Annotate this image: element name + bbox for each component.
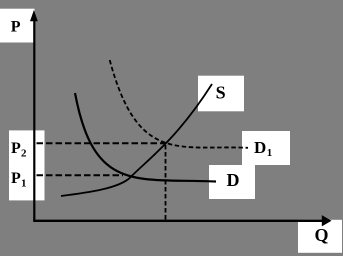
svg-text:D: D	[254, 138, 266, 157]
svg-text:D: D	[227, 170, 240, 190]
svg-text:2: 2	[21, 148, 27, 160]
svg-text:S: S	[216, 82, 226, 102]
svg-text:P: P	[11, 170, 21, 187]
svg-text:1: 1	[267, 147, 273, 159]
svg-text:P: P	[11, 140, 21, 157]
svg-text:Q: Q	[315, 225, 329, 245]
svg-text:P: P	[11, 18, 21, 35]
svg-text:1: 1	[21, 178, 27, 190]
